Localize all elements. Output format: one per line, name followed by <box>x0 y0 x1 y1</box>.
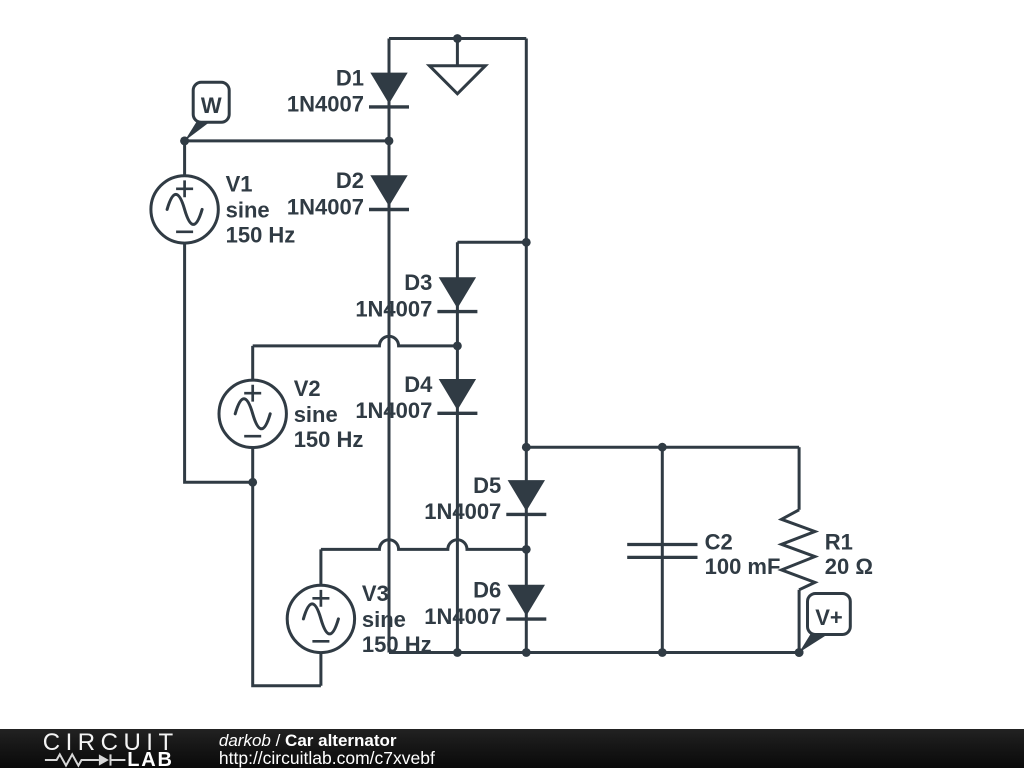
svg-text:D4: D4 <box>404 372 433 397</box>
svg-text:D6: D6 <box>473 578 501 603</box>
svg-text:150 Hz: 150 Hz <box>362 632 432 657</box>
svg-text:LAB: LAB <box>127 749 174 768</box>
svg-text:150 Hz: 150 Hz <box>226 223 296 248</box>
svg-text:D3: D3 <box>404 270 432 295</box>
svg-text:D1: D1 <box>336 65 364 90</box>
svg-text:D5: D5 <box>473 473 501 498</box>
svg-text:sine: sine <box>226 197 270 222</box>
svg-text:100 mF: 100 mF <box>705 554 781 579</box>
svg-text:W: W <box>201 93 222 118</box>
svg-text:V3: V3 <box>362 581 389 606</box>
svg-text:1N4007: 1N4007 <box>355 398 432 423</box>
svg-text:1N4007: 1N4007 <box>287 194 364 219</box>
svg-text:1N4007: 1N4007 <box>355 296 432 321</box>
svg-text:D2: D2 <box>336 168 364 193</box>
svg-text:150 Hz: 150 Hz <box>294 427 364 452</box>
svg-text:20 Ω: 20 Ω <box>825 554 873 579</box>
svg-text:1N4007: 1N4007 <box>424 499 501 524</box>
svg-text:V2: V2 <box>294 376 321 401</box>
svg-text:V+: V+ <box>815 605 843 630</box>
svg-text:V1: V1 <box>226 172 253 197</box>
svg-text:1N4007: 1N4007 <box>424 604 501 629</box>
svg-text:sine: sine <box>294 402 338 427</box>
svg-text:sine: sine <box>362 607 406 632</box>
svg-text:C2: C2 <box>705 529 733 554</box>
svg-text:1N4007: 1N4007 <box>287 92 364 117</box>
svg-text:http://circuitlab.com/c7xvebf: http://circuitlab.com/c7xvebf <box>219 748 435 768</box>
svg-text:R1: R1 <box>825 529 853 554</box>
